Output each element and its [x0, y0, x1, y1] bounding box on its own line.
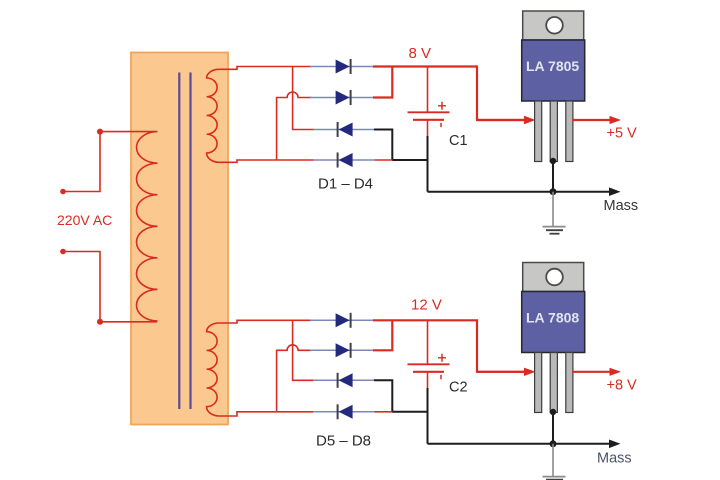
wire bridge1 negative: D3 anode down to row4	[374, 130, 392, 161]
capacitor C2 plus sign	[438, 354, 446, 362]
wire secondary S2 top lead	[219, 320, 311, 323]
svg-text:LA 7808: LA 7808	[526, 309, 579, 325]
diode D5	[336, 313, 351, 328]
diode D5 leads	[310, 319, 374, 321]
wire pin2 to ground rail (U2)	[552, 412, 554, 444]
wire bridge1 left vertical B (row2 to row4)	[277, 92, 312, 160]
wire ground rail 2 (Mass)	[428, 443, 612, 445]
diode D4 leads	[313, 159, 375, 161]
wire capacitor C2 top lead	[427, 320, 429, 364]
svg-text:+8 V: +8 V	[607, 378, 638, 394]
wire bridge2 row4 left red	[277, 411, 314, 413]
regulator U2 hole	[546, 269, 563, 286]
wire bridge1 row4 left red	[277, 159, 314, 161]
svg-text:220V AC: 220V AC	[57, 212, 112, 228]
wire 220V upper lead	[63, 132, 100, 192]
wire bridge2 negative: D7 anode down to row4	[374, 380, 392, 412]
diode D8	[338, 404, 353, 419]
regulator U2 pin1	[535, 353, 542, 413]
capacitor C1 plus sign	[438, 102, 446, 110]
node pin2 bottom dot	[550, 158, 556, 164]
wire capacitor C1 top lead	[427, 67, 429, 113]
regulator U2 body	[522, 292, 585, 353]
svg-text:Mass: Mass	[597, 451, 632, 467]
diode D7	[338, 373, 353, 388]
wire +5V output line	[572, 119, 611, 121]
node: upper input terminal	[60, 189, 66, 195]
wire bridge2 negative to capacitor node	[392, 411, 427, 413]
capacitor C1 plates	[408, 111, 450, 113]
wire capacitor C1 bottom lead red part	[427, 120, 429, 136]
svg-text:Mass: Mass	[604, 198, 639, 214]
ground symbol 2 bars	[543, 476, 566, 478]
diode D2 leads	[310, 97, 374, 99]
svg-text:LA 7805: LA 7805	[526, 58, 579, 74]
node pin2 bottom dot (U2)	[550, 409, 556, 415]
diode D7 leads	[313, 379, 375, 381]
regulator U1 input arrowhead	[524, 116, 536, 124]
diode D6 leads	[310, 349, 374, 351]
wire bridge1 D2 cathode to rail	[373, 67, 392, 98]
node: primary top junction	[97, 129, 103, 135]
wire bridge2 left vertical B (row2 to row4)	[277, 345, 312, 412]
wire bridge2 left vertical A (row1 to row3)	[293, 320, 314, 380]
secondary winding S2	[207, 323, 219, 416]
regulator U1 hole	[546, 17, 563, 34]
wire capacitor C1 bottom lead black to ground rail	[427, 136, 429, 192]
regulator U2 LA7808 tab	[523, 263, 584, 292]
regulator U1 pin2	[550, 101, 557, 162]
wire 220V lower lead	[63, 252, 100, 322]
capacitor C2 minus tick	[440, 375, 442, 379]
wire capacitor C2 bottom lead black to ground rail	[427, 388, 429, 444]
diode D4	[338, 153, 353, 168]
wire secondary S1 top lead	[219, 67, 311, 70]
secondary winding S1	[207, 69, 219, 162]
wire bridge2 row4 right red stub	[375, 411, 394, 413]
capacitor C2 plates	[408, 363, 450, 365]
diode D1 leads	[310, 66, 374, 68]
wire secondary S1 bottom lead	[219, 160, 277, 162]
arrow +8V output	[610, 368, 622, 376]
wire bridge2 right positive rail (12V)	[373, 320, 525, 372]
svg-text:+5 V: +5 V	[607, 126, 638, 142]
wire ground rail (Mass)	[428, 191, 612, 193]
wire +8V output line	[572, 371, 611, 373]
arrow Mass 2	[609, 440, 621, 449]
node ground rail 2 junction	[550, 440, 557, 447]
svg-text:C2: C2	[449, 380, 468, 396]
wire bridge1 right positive rail (8V)	[373, 67, 525, 121]
node ground rail junction	[550, 188, 557, 195]
svg-text:8 V: 8 V	[409, 45, 432, 62]
transformer body (orange block)	[131, 53, 228, 425]
svg-text:D1 – D4: D1 – D4	[318, 176, 373, 193]
wire bridge2 D6 cathode to rail	[373, 320, 392, 350]
regulator U2 pin2	[550, 353, 557, 413]
arrow +5V output	[610, 116, 622, 124]
wire capacitor C2 bottom lead red part	[427, 372, 429, 388]
svg-text:D5 – D8: D5 – D8	[316, 433, 371, 450]
wire pin2 to ground rail	[552, 161, 554, 192]
svg-text:C1: C1	[449, 133, 468, 149]
regulator U1 pin1	[535, 101, 542, 162]
node: lower input terminal	[60, 249, 66, 255]
regulator U2 pin3	[566, 353, 573, 413]
node: primary bottom junction	[97, 319, 103, 325]
regulator U1 LA7805 tab	[523, 11, 584, 40]
regulator U1 input arrow line	[477, 119, 525, 121]
ground symbol 1 bars	[543, 226, 566, 228]
wire secondary S2 bottom lead	[219, 412, 277, 416]
diode D1	[336, 59, 351, 74]
transformer core (two vertical lines)	[178, 73, 180, 410]
diode D3	[338, 122, 353, 137]
wire bridge1 negative to capacitor node	[392, 159, 427, 161]
diode D2	[336, 90, 351, 105]
ground symbol 1 stem	[552, 192, 554, 226]
regulator U2 input arrow line	[477, 371, 525, 373]
wire bridge1 row4 right red stub	[375, 159, 394, 161]
regulator U1 body	[522, 40, 585, 101]
svg-text:12 V: 12 V	[411, 297, 442, 314]
arrow Mass	[609, 187, 621, 196]
regulator U2 input arrowhead	[524, 368, 536, 376]
regulator U1 pin3	[566, 101, 573, 162]
wire bridge1 left vertical A (row1 to row3)	[293, 67, 314, 130]
diode D3 leads	[313, 129, 375, 131]
diode D8 leads	[313, 411, 375, 413]
ground symbol 2 stem	[552, 444, 554, 476]
primary winding L1	[100, 132, 158, 322]
diode D6	[336, 343, 351, 358]
capacitor C1 minus tick	[440, 123, 442, 127]
